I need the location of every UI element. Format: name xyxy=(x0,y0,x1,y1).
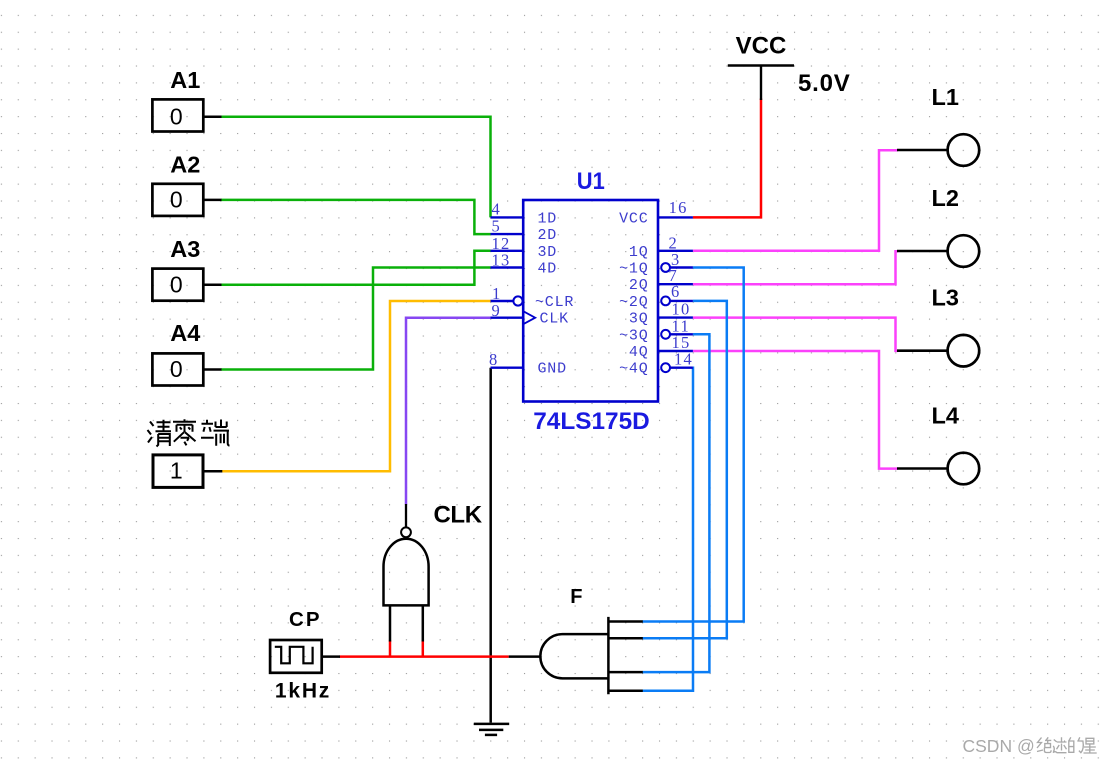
svg-text:L3: L3 xyxy=(931,285,958,311)
wire A2 to pin5 xyxy=(221,200,491,234)
wire orange clear net xyxy=(222,301,491,471)
pin 11 bubble xyxy=(661,330,670,339)
svg-text:A3: A3 xyxy=(170,236,200,262)
svg-text:CP: CP xyxy=(289,608,321,631)
ground symbol xyxy=(474,724,509,735)
svg-text:0: 0 xyxy=(170,271,183,297)
svg-text:16: 16 xyxy=(669,198,688,217)
lamp L3 xyxy=(897,349,948,352)
svg-text:A2: A2 xyxy=(170,151,200,177)
svg-text:1kHz: 1kHz xyxy=(275,679,331,702)
wire stub CP output xyxy=(322,655,340,658)
watermark CSDN xyxy=(963,736,1035,756)
svg-text:0: 0 xyxy=(170,187,183,213)
svg-text:GND: GND xyxy=(538,361,567,378)
lamp L4 xyxy=(897,467,948,470)
wire red nand leg left xyxy=(389,641,392,657)
svg-text:CLK: CLK xyxy=(434,502,483,529)
pin 7 lead xyxy=(658,283,693,285)
and gate F back bar xyxy=(607,617,610,694)
nand gate bubble xyxy=(401,527,411,537)
svg-text:0: 0 xyxy=(170,103,183,129)
svg-text:9: 9 xyxy=(492,301,500,320)
pin 16 lead xyxy=(658,216,693,218)
CP square wave glyph xyxy=(275,647,313,664)
wire blue pin11 to F input3 xyxy=(642,334,709,672)
svg-text:L2: L2 xyxy=(931,185,958,211)
wire magenta pin15 to L4 xyxy=(693,351,898,469)
svg-text:5: 5 xyxy=(492,216,500,235)
CP clock source box xyxy=(270,640,322,673)
char xing xyxy=(1084,738,1097,753)
label qinglingduan (Chinese, drawn as vector strokes) xyxy=(148,419,230,446)
svg-text:~4Q: ~4Q xyxy=(619,361,648,378)
pin 3 bubble xyxy=(661,263,670,272)
svg-text:0: 0 xyxy=(170,356,183,382)
svg-text:4Q: 4Q xyxy=(629,344,649,361)
svg-text:3D: 3D xyxy=(538,244,558,261)
svg-text:F: F xyxy=(570,586,582,608)
nand gate output lead xyxy=(405,504,407,527)
and gate F body xyxy=(540,634,608,678)
svg-text:1: 1 xyxy=(170,458,183,484)
input box A1 xyxy=(152,99,203,131)
char jue xyxy=(1037,737,1051,752)
pin 13 lead xyxy=(491,266,524,268)
and gate F input stub 3 xyxy=(608,671,642,674)
input box A3 xyxy=(152,269,203,301)
wire A4 to pin13 xyxy=(221,268,491,370)
pin 8 lead xyxy=(491,367,524,369)
wire stub A3 xyxy=(203,283,221,286)
nand gate input leg right xyxy=(422,605,425,641)
wire stub A2 xyxy=(203,199,221,202)
wire stub clear xyxy=(203,470,222,473)
pin 10 lead xyxy=(658,316,693,318)
wire A1 to pin4 xyxy=(221,117,491,218)
input box A4 xyxy=(152,353,203,385)
char de xyxy=(1069,737,1084,752)
svg-text:L4: L4 xyxy=(931,402,958,428)
char ji xyxy=(1053,737,1067,752)
wire red CP net xyxy=(339,655,508,658)
wire red nand leg right xyxy=(422,641,425,657)
svg-text:6: 6 xyxy=(671,282,679,301)
svg-text:1D: 1D xyxy=(538,210,558,227)
pin 3 lead xyxy=(670,266,693,268)
wire blue pin6 to F input2 xyxy=(642,301,726,638)
svg-text:4D: 4D xyxy=(538,261,558,278)
svg-text:~1Q: ~1Q xyxy=(619,261,648,278)
input box clear (qingling) xyxy=(153,455,203,488)
svg-text:~2Q: ~2Q xyxy=(619,294,648,311)
svg-text:2Q: 2Q xyxy=(629,277,649,294)
wire magenta pin7 to L2 xyxy=(693,251,898,284)
pin 14 bubble xyxy=(661,363,670,372)
and gate F input stub 2 xyxy=(608,637,642,640)
nand gate input leg left xyxy=(389,605,392,641)
lamp L1 xyxy=(897,149,948,152)
wire blue pin14 to F input4 xyxy=(642,368,693,691)
and gate F output lead xyxy=(509,655,541,658)
svg-text:2D: 2D xyxy=(538,227,558,244)
svg-text:5.0V: 5.0V xyxy=(798,70,851,97)
wire blue pin3 to F input1 xyxy=(642,268,743,622)
svg-text:U1: U1 xyxy=(577,168,605,195)
pin 9 lead xyxy=(491,317,524,319)
pin 11 lead xyxy=(670,333,693,335)
wire stub A4 xyxy=(203,368,221,371)
svg-text:~3Q: ~3Q xyxy=(619,327,648,344)
svg-text:14: 14 xyxy=(674,349,693,368)
svg-text:8: 8 xyxy=(489,350,497,369)
svg-text:CLK: CLK xyxy=(540,311,569,328)
pin 1 lead xyxy=(491,300,514,302)
and gate F input stub 4 xyxy=(608,689,642,692)
svg-text:VCC: VCC xyxy=(619,210,648,227)
wire magenta pin2 to L1 xyxy=(693,150,898,251)
nand gate CLK body xyxy=(384,539,429,606)
svg-text:L1: L1 xyxy=(931,84,958,110)
pin 5 lead xyxy=(491,233,524,235)
VCC rail symbol xyxy=(728,66,794,101)
svg-text:1Q: 1Q xyxy=(629,244,649,261)
pin 1 CLR bubble xyxy=(513,296,522,305)
and gate F input stub 1 xyxy=(608,620,642,623)
chip left pin leads xyxy=(491,217,693,367)
pin 2 lead xyxy=(658,250,693,252)
chip U1 74LS175D body xyxy=(523,200,658,402)
pin 12 lead xyxy=(491,250,524,252)
watermark Chinese chars (vector) xyxy=(1037,737,1097,753)
wire magenta pin10 to L3 xyxy=(693,318,898,351)
pin 9 clock triangle xyxy=(523,311,535,324)
svg-text:3Q: 3Q xyxy=(629,311,649,328)
svg-text:13: 13 xyxy=(492,251,511,270)
lamp L2 xyxy=(897,250,948,253)
pin 6 lead xyxy=(670,300,693,302)
wire black GND net xyxy=(489,368,492,723)
svg-text:VCC: VCC xyxy=(736,33,787,60)
svg-text:A1: A1 xyxy=(170,67,200,93)
pin 15 lead xyxy=(658,350,693,352)
pin 14 lead xyxy=(670,367,693,369)
svg-text:CSDN @: CSDN @ xyxy=(963,736,1035,756)
svg-text:74LS175D: 74LS175D xyxy=(533,408,650,435)
svg-text:~CLR: ~CLR xyxy=(535,294,574,311)
char qing xyxy=(148,422,154,443)
input box A2 xyxy=(152,184,203,216)
wire red VCC net xyxy=(693,99,761,218)
char duan xyxy=(201,420,214,438)
svg-text:A4: A4 xyxy=(170,320,200,346)
wire stub A1 xyxy=(203,116,221,119)
pin 4 lead xyxy=(491,216,524,218)
char ling xyxy=(173,419,196,422)
wire A3 to pin12 xyxy=(221,251,491,285)
wire purple CLK net xyxy=(406,318,491,505)
pin 6 bubble xyxy=(661,297,670,306)
